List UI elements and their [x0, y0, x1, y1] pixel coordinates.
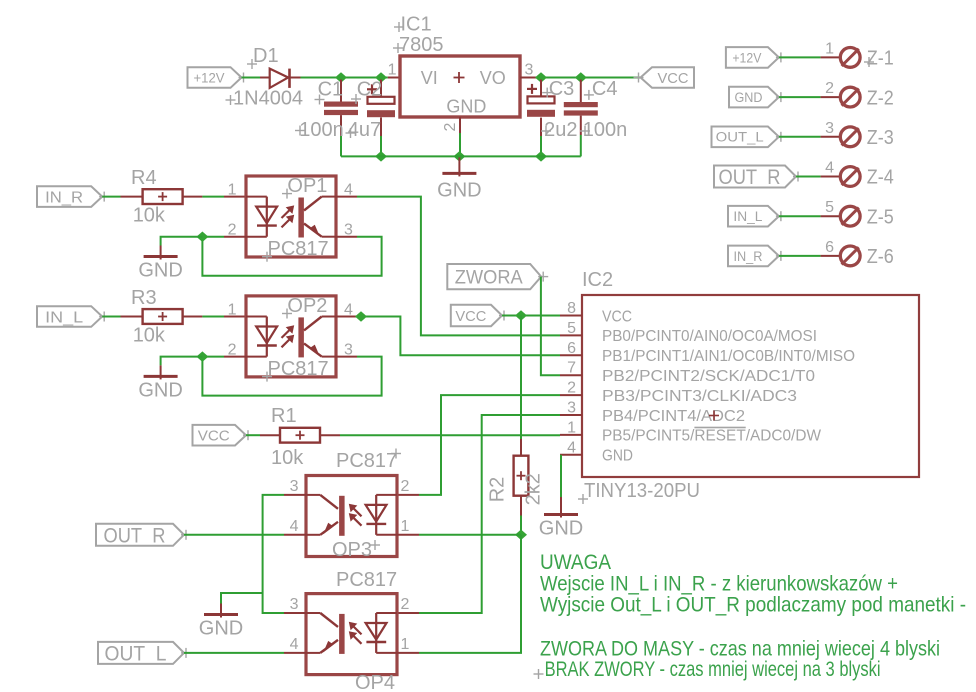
svg-text:2k2: 2k2 [523, 473, 545, 505]
svg-text:Z-1: Z-1 [867, 48, 894, 70]
svg-text:TINY13-20PU: TINY13-20PU [584, 480, 700, 502]
svg-text:OP3: OP3 [332, 539, 372, 561]
svg-text:BRAK ZWORY - czas mniej wiecej: BRAK ZWORY - czas mniej wiecej na 3 blys… [545, 658, 881, 681]
svg-text:OP4: OP4 [355, 672, 395, 692]
svg-text:R4: R4 [131, 167, 157, 189]
svg-text:1: 1 [825, 40, 834, 57]
svg-text:4u7: 4u7 [348, 119, 381, 141]
svg-text:Z-2: Z-2 [867, 87, 894, 109]
svg-text:PC817: PC817 [336, 569, 397, 591]
svg-text:2: 2 [567, 380, 576, 397]
svg-text:4: 4 [290, 636, 299, 653]
svg-text:OP1: OP1 [287, 175, 327, 197]
svg-text:2u2: 2u2 [544, 119, 577, 141]
svg-text:IN_R: IN_R [733, 249, 762, 264]
svg-text:PC817: PC817 [268, 238, 329, 260]
svg-text:IC1: IC1 [401, 14, 432, 36]
svg-text:+12V: +12V [194, 70, 226, 86]
svg-text:1N4004: 1N4004 [233, 88, 303, 110]
svg-text:PC817: PC817 [268, 358, 329, 380]
svg-text:VCC: VCC [198, 428, 230, 445]
svg-text:C2: C2 [357, 78, 383, 100]
svg-text:OUT_R: OUT_R [719, 166, 781, 189]
svg-text:R1: R1 [271, 405, 297, 427]
svg-text:3: 3 [825, 120, 834, 137]
svg-text:2: 2 [401, 596, 410, 613]
svg-text:GND: GND [199, 618, 243, 640]
svg-text:R2: R2 [487, 477, 509, 503]
svg-text:C3: C3 [549, 78, 575, 100]
svg-text:UWAGA: UWAGA [540, 551, 611, 574]
svg-text:2: 2 [825, 80, 834, 97]
svg-text:3: 3 [290, 478, 299, 495]
svg-text:10k: 10k [133, 325, 166, 347]
svg-text:PC817: PC817 [336, 450, 397, 472]
svg-text:Wyjscie Out_L i OUT_R podlacza: Wyjscie Out_L i OUT_R podlaczamy pod man… [540, 594, 966, 617]
svg-text:OUT_L: OUT_L [105, 642, 167, 665]
svg-text:IN_L: IN_L [733, 209, 762, 224]
svg-text:OUT_R: OUT_R [104, 524, 166, 547]
svg-text:GND: GND [138, 260, 182, 282]
svg-text:PB5/PCINT5/RESET/ADC0/DW: PB5/PCINT5/RESET/ADC0/DW [602, 428, 822, 445]
svg-text:R3: R3 [131, 287, 157, 309]
svg-text:4: 4 [825, 160, 834, 177]
svg-text:GND: GND [539, 518, 583, 540]
svg-text:GND: GND [734, 90, 762, 105]
svg-text:100n: 100n [583, 119, 628, 141]
svg-text:C4: C4 [592, 78, 618, 100]
svg-text:GND: GND [437, 179, 481, 201]
svg-text:3: 3 [290, 596, 299, 613]
svg-text:IN_R: IN_R [45, 189, 83, 206]
svg-text:Z-5: Z-5 [867, 206, 894, 228]
svg-text:C1: C1 [318, 78, 344, 100]
svg-text:1: 1 [228, 182, 237, 199]
svg-text:OUT_L: OUT_L [716, 130, 765, 145]
svg-text:4: 4 [290, 518, 299, 535]
svg-text:6: 6 [567, 340, 576, 357]
svg-text:GND: GND [602, 448, 633, 465]
svg-text:PB0/PCINT0/AIN0/OC0A/MOSI: PB0/PCINT0/AIN0/OC0A/MOSI [602, 328, 817, 345]
svg-text:3: 3 [567, 400, 576, 417]
svg-text:GND: GND [446, 96, 486, 116]
svg-text:PB1/PCINT1/AIN1/OC0B/INT0/MISO: PB1/PCINT1/AIN1/OC0B/INT0/MISO [602, 348, 855, 365]
svg-text:PB3/PCINT3/CLKI/ADC3: PB3/PCINT3/CLKI/ADC3 [602, 388, 797, 405]
svg-text:VCC: VCC [455, 308, 486, 325]
svg-text:5: 5 [825, 199, 834, 216]
svg-text:Wejscie IN_L i IN_R - z kierun: Wejscie IN_L i IN_R - z kierunkowskazów … [540, 573, 898, 596]
svg-text:VI: VI [421, 68, 438, 88]
svg-text:2: 2 [401, 478, 410, 495]
svg-text:PB2/PCINT2/SCK/ADC1/T0: PB2/PCINT2/SCK/ADC1/T0 [602, 368, 815, 385]
svg-text:PB4/PCINT4/ADC2: PB4/PCINT4/ADC2 [602, 408, 745, 425]
svg-text:GND: GND [138, 379, 182, 401]
svg-text:VO: VO [480, 68, 506, 88]
svg-text:IC2: IC2 [582, 269, 613, 291]
svg-text:Z-3: Z-3 [867, 127, 894, 149]
svg-text:OP2: OP2 [287, 295, 327, 317]
svg-text:7: 7 [567, 360, 576, 377]
svg-text:10k: 10k [271, 447, 304, 469]
svg-text:1: 1 [401, 518, 410, 535]
svg-text:3: 3 [525, 62, 534, 79]
svg-text:Z-4: Z-4 [867, 167, 894, 189]
svg-text:7805: 7805 [399, 34, 444, 56]
svg-text:VCC: VCC [602, 308, 632, 325]
svg-text:1: 1 [388, 62, 397, 79]
svg-text:100n: 100n [299, 119, 344, 141]
svg-text:5: 5 [567, 320, 576, 337]
svg-text:8: 8 [567, 300, 576, 317]
svg-text:1: 1 [567, 419, 576, 436]
svg-text:+12V: +12V [732, 50, 761, 65]
svg-text:2: 2 [442, 122, 459, 131]
svg-text:4: 4 [567, 439, 576, 456]
svg-text:1: 1 [401, 636, 410, 653]
svg-text:ZWORA: ZWORA [455, 267, 523, 288]
svg-text:6: 6 [825, 239, 834, 256]
svg-text:Z-6: Z-6 [867, 246, 894, 268]
svg-text:1: 1 [228, 302, 237, 319]
svg-text:VCC: VCC [658, 70, 689, 87]
svg-text:10k: 10k [133, 205, 166, 227]
svg-text:IN_L: IN_L [45, 309, 83, 326]
